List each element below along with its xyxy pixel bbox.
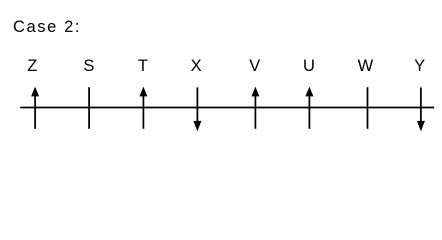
- svg-text:Z: Z: [27, 57, 37, 75]
- svg-text:Case 2:: Case 2:: [13, 18, 81, 36]
- svg-text:Y: Y: [414, 57, 425, 75]
- svg-text:U: U: [303, 57, 315, 75]
- svg-text:S: S: [83, 57, 94, 75]
- svg-text:T: T: [138, 57, 148, 75]
- svg-text:V: V: [249, 57, 260, 75]
- svg-text:X: X: [191, 57, 202, 75]
- svg-text:W: W: [358, 57, 374, 75]
